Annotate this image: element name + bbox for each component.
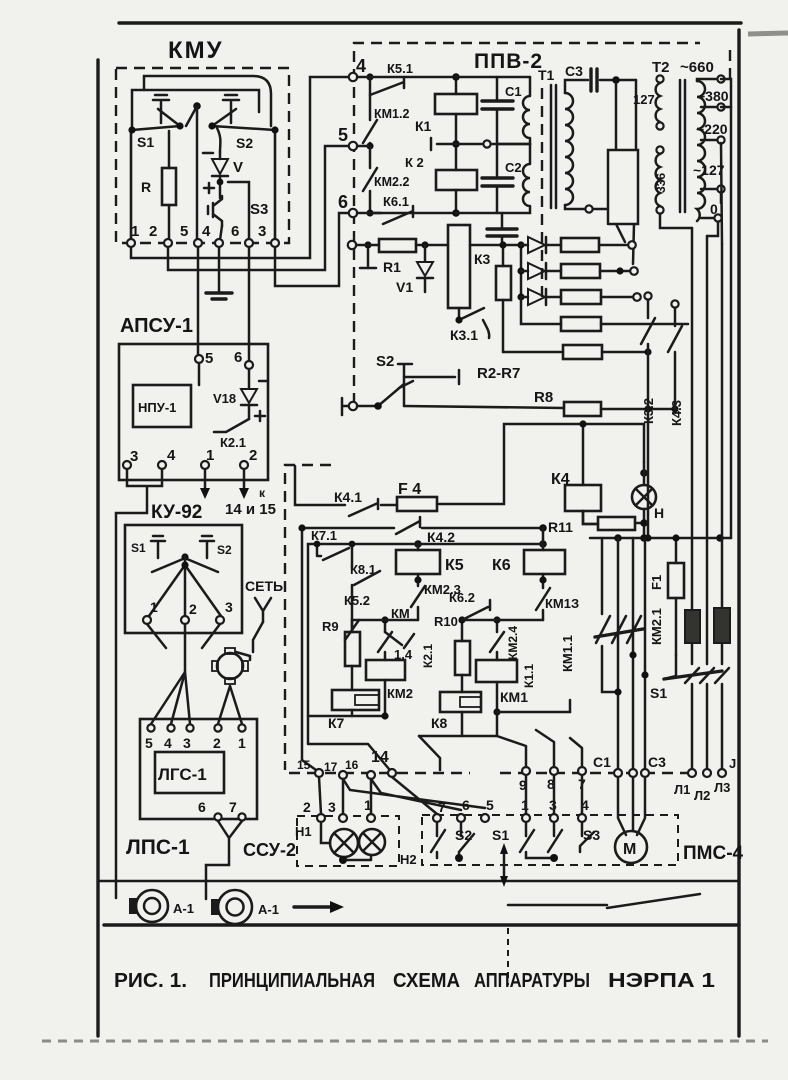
handset hook S2 xyxy=(223,95,239,123)
svg-text:4: 4 xyxy=(167,447,176,464)
wire KM1 bottom xyxy=(419,682,497,736)
svg-text:1: 1 xyxy=(131,223,139,240)
svg-text:НЭРПА 1: НЭРПА 1 xyxy=(608,970,715,992)
relay K8 xyxy=(440,692,481,712)
KMU inner enclosure xyxy=(131,130,275,243)
wire pin2 to PPV pin5 xyxy=(168,146,349,270)
svg-text:КМ1.2: КМ1.2 xyxy=(374,107,409,121)
svg-text:К6.1: К6.1 xyxy=(383,194,409,209)
switch K4.2 xyxy=(396,517,420,534)
switch K7.1 xyxy=(317,544,349,560)
resistor row4 xyxy=(561,317,601,331)
S2 left terminal xyxy=(342,398,349,415)
switch S1 contacts xyxy=(132,109,180,130)
pin 3 xyxy=(216,616,224,624)
capacitor C2 xyxy=(496,144,499,176)
wire 14 diag xyxy=(419,736,440,770)
svg-text:А-1: А-1 xyxy=(258,902,279,917)
wires fan to LGS pins xyxy=(151,672,190,724)
riser top connectors xyxy=(660,214,692,228)
svg-text:К6: К6 xyxy=(492,557,511,574)
svg-text:6: 6 xyxy=(462,797,470,813)
T2 primary upper xyxy=(656,75,663,82)
wire pin5 to APSU xyxy=(197,247,200,355)
wire W2 branch xyxy=(302,527,394,530)
contact KM1.2 xyxy=(363,77,377,146)
diode D2 xyxy=(521,270,528,273)
svg-text:КМ2.4: КМ2.4 xyxy=(506,626,520,660)
svg-text:S2: S2 xyxy=(236,135,253,151)
arrow from pin 1 xyxy=(204,469,207,488)
border frame right line xyxy=(737,30,740,1036)
svg-text:7: 7 xyxy=(229,799,237,815)
inductor top xyxy=(491,77,530,144)
svg-text:~220: ~220 xyxy=(696,121,728,137)
svg-text:R1: R1 xyxy=(383,259,401,275)
svg-text:КМ1З: КМ1З xyxy=(545,596,579,611)
svg-text:КМ2: КМ2 xyxy=(387,686,413,701)
svg-text:F 4: F 4 xyxy=(398,481,421,498)
wire pin5 inside xyxy=(198,363,201,385)
svg-text:15: 15 xyxy=(297,758,311,772)
switch contacts KU xyxy=(152,559,218,572)
svg-text:Н2: Н2 xyxy=(400,852,417,867)
pin 2 xyxy=(164,239,172,247)
phase risers right group xyxy=(691,228,694,664)
svg-text:Л2: Л2 xyxy=(694,788,710,803)
svg-text:К3.1: К3.1 xyxy=(450,327,478,343)
pin 4 xyxy=(215,239,223,247)
tap 0 xyxy=(701,217,714,220)
wire K4 to R11 xyxy=(583,511,598,524)
relay K1 xyxy=(435,94,477,114)
svg-text:4: 4 xyxy=(356,56,366,76)
wire pins34 join xyxy=(116,469,162,898)
tap 380 xyxy=(701,106,717,109)
diag wires rowA to S2 xyxy=(343,777,485,814)
svg-text:СХЕМА: СХЕМА xyxy=(393,970,460,992)
svg-text:М: М xyxy=(623,841,636,858)
phase risers left group xyxy=(602,538,618,692)
switch K3.1 xyxy=(459,308,489,338)
svg-text:S1: S1 xyxy=(492,827,509,843)
wire pin3 to PPV pin6 xyxy=(275,213,349,286)
svg-text:2: 2 xyxy=(249,447,257,464)
wire K7 bottom xyxy=(351,710,354,716)
resistor R8 xyxy=(564,402,601,416)
svg-text:АПСУ-1: АПСУ-1 xyxy=(120,315,193,337)
resistor R xyxy=(162,168,176,205)
wire K4.2 bus xyxy=(422,527,543,530)
svg-text:5: 5 xyxy=(486,797,494,813)
relay K2 xyxy=(436,170,477,190)
transformer T1 core xyxy=(550,85,553,208)
lamp N2 xyxy=(359,829,385,855)
svg-text:С2: С2 xyxy=(505,160,522,175)
resistor row1 xyxy=(561,238,599,252)
pin 5 xyxy=(194,239,202,247)
wire left riser xyxy=(302,528,316,770)
inductor bottom xyxy=(456,144,530,213)
diode V1 xyxy=(424,245,427,261)
wires row A to row B left xyxy=(319,777,371,814)
pin 4 xyxy=(349,73,357,81)
svg-text:3: 3 xyxy=(130,448,138,465)
pin 2 xyxy=(240,461,248,469)
pin 3 xyxy=(123,461,131,469)
block KU-92 box xyxy=(125,525,242,633)
svg-text:А-1: А-1 xyxy=(173,901,194,916)
svg-text:Т2: Т2 xyxy=(652,59,670,76)
svg-text:6: 6 xyxy=(338,192,348,212)
horizontal rule above speakers xyxy=(98,880,739,883)
svg-text:S2: S2 xyxy=(217,543,232,557)
svg-text:РИС. 1.: РИС. 1. xyxy=(114,970,187,992)
svg-text:1: 1 xyxy=(206,447,214,464)
lamp wires xyxy=(321,822,371,860)
svg-text:6: 6 xyxy=(231,223,239,240)
svg-text:Н1: Н1 xyxy=(295,824,312,839)
svg-text:КМ1.1: КМ1.1 xyxy=(560,635,575,672)
diode V18 xyxy=(248,369,251,388)
wire pin4 to ground xyxy=(218,247,221,292)
wire F4 to K4 xyxy=(437,424,644,504)
motor M xyxy=(618,777,645,835)
svg-text:F1: F1 xyxy=(649,575,664,590)
tap 220 xyxy=(701,139,717,142)
wire center fan xyxy=(149,557,221,616)
svg-text:К 2: К 2 xyxy=(405,155,424,170)
border frame left line xyxy=(96,60,99,1036)
contact K6.2 xyxy=(462,600,490,620)
dashed divider T1 xyxy=(541,88,543,300)
fuse F3 xyxy=(714,608,730,643)
fuse F1 xyxy=(668,563,684,598)
fuse F2 xyxy=(685,610,700,643)
resistor row2 xyxy=(561,264,600,278)
wire S2 to R8 xyxy=(404,406,564,408)
contact KM13 xyxy=(536,574,550,620)
block KMU dashed box xyxy=(116,68,289,243)
svg-text:Н: Н xyxy=(654,505,664,521)
loudspeaker A-1 left xyxy=(136,890,168,922)
svg-text:К7: К7 xyxy=(328,715,345,731)
scan smudge top right xyxy=(748,33,788,34)
svg-text:1: 1 xyxy=(238,735,246,751)
svg-text:6: 6 xyxy=(234,349,242,366)
contact 1.4 xyxy=(385,632,414,648)
diode rail xyxy=(520,245,523,297)
bus W4 xyxy=(590,537,731,540)
svg-text:К3: К3 xyxy=(474,251,491,267)
tap 127 xyxy=(701,188,717,191)
svg-text:2: 2 xyxy=(149,223,157,240)
svg-text:~660: ~660 xyxy=(680,59,714,76)
hook T left xyxy=(151,536,165,558)
svg-text:С1: С1 xyxy=(593,754,611,770)
svg-text:1: 1 xyxy=(150,599,158,615)
relay K5 xyxy=(396,550,440,574)
svg-text:К5.2: К5.2 xyxy=(344,593,370,608)
svg-text:336: 336 xyxy=(654,173,668,193)
relay K3 xyxy=(448,225,470,308)
svg-text:R11: R11 xyxy=(548,519,573,535)
KMU top loop outer xyxy=(144,76,271,126)
svg-text:2: 2 xyxy=(189,601,197,617)
wire pin6 to APSU xyxy=(248,247,251,361)
svg-text:3: 3 xyxy=(258,223,266,240)
node common top xyxy=(193,102,201,110)
svg-text:R9: R9 xyxy=(322,619,339,634)
svg-text:R2-R7: R2-R7 xyxy=(477,365,520,382)
pin 4 xyxy=(158,461,166,469)
block APSU-1 box xyxy=(119,344,268,480)
handset hook S1 xyxy=(153,95,169,123)
svg-text:К1.1: К1.1 xyxy=(522,664,536,688)
pin 5 xyxy=(195,355,203,363)
svg-text:КМУ: КМУ xyxy=(168,37,224,64)
pin 1 xyxy=(201,461,209,469)
diode D3 xyxy=(521,296,528,299)
svg-text:К7.1: К7.1 xyxy=(311,528,337,543)
svg-text:S1: S1 xyxy=(650,685,667,701)
svg-text:14: 14 xyxy=(371,749,389,766)
wire to pin 3 xyxy=(228,182,249,240)
transistor S3 xyxy=(208,196,222,226)
node pin4 xyxy=(366,73,373,80)
svg-text:7: 7 xyxy=(438,799,446,815)
KMU top loop inner xyxy=(132,90,259,128)
pin 1 xyxy=(127,239,135,247)
wires mic to LGS xyxy=(218,686,242,724)
svg-text:Т1: Т1 xyxy=(538,67,555,83)
wire mid tap xyxy=(431,138,482,150)
svg-text:5: 5 xyxy=(338,125,348,145)
svg-text:КМ2.2: КМ2.2 xyxy=(374,175,409,189)
loudspeaker A-1 right xyxy=(218,890,252,924)
svg-text:6: 6 xyxy=(198,799,206,815)
svg-text:Л3: Л3 xyxy=(714,780,730,795)
svg-text:К6.2: К6.2 xyxy=(449,590,475,605)
svg-text:К1: К1 xyxy=(415,118,432,134)
polarity minus xyxy=(203,152,213,155)
hook T right xyxy=(200,536,214,558)
resistor R1 xyxy=(356,244,379,247)
switch K8.1 xyxy=(352,544,380,632)
wire bottom bus xyxy=(370,212,456,215)
capacitor C1 xyxy=(496,77,499,99)
wire KM2 bottom xyxy=(308,680,385,716)
resistor row3 xyxy=(561,290,601,304)
switch S2 contacts xyxy=(212,109,275,130)
svg-text:Л1: Л1 xyxy=(674,782,690,797)
vertical arrow xyxy=(503,852,506,878)
transformer T2 core xyxy=(679,80,682,212)
svg-text:С3: С3 xyxy=(648,754,666,770)
capacitor above K3 xyxy=(501,213,504,227)
node T1 bottom xyxy=(585,205,592,212)
svg-text:4: 4 xyxy=(202,223,211,240)
block PPV-2 dashed box xyxy=(354,43,700,404)
contact KM xyxy=(378,620,392,660)
switch K6.1 xyxy=(357,206,413,224)
S2 contact xyxy=(357,364,413,406)
wire K3 top xyxy=(470,244,521,247)
wire K1 K2 vertical xyxy=(455,77,458,213)
svg-text:127: 127 xyxy=(633,92,655,107)
ground stub xyxy=(360,249,376,268)
svg-text:ППВ-2: ППВ-2 xyxy=(474,50,543,73)
svg-text:5: 5 xyxy=(180,223,188,240)
svg-text:16: 16 xyxy=(345,758,359,772)
main bus W3 xyxy=(414,540,422,548)
svg-text:R8: R8 xyxy=(534,389,553,406)
T1 winding xyxy=(565,93,573,205)
svg-text:К8: К8 xyxy=(431,715,448,731)
wire K5 row to KM xyxy=(352,619,418,622)
resistor row5 xyxy=(563,345,602,359)
block LGS-1 box xyxy=(140,719,257,819)
switch K4.1 xyxy=(349,499,378,516)
svg-text:К2.1: К2.1 xyxy=(220,435,246,450)
block PMS-4 dashed box xyxy=(422,815,678,865)
switch K2.1 xyxy=(214,419,249,432)
svg-text:3: 3 xyxy=(225,599,233,615)
switch S1 contacts xyxy=(520,822,554,858)
signal lamp N xyxy=(640,469,648,477)
svg-text:14 и 15: 14 и 15 xyxy=(225,501,276,518)
horizontal rule above caption xyxy=(104,923,739,926)
antenna xyxy=(255,598,271,622)
svg-text:ПРИНЦИПИАЛЬНАЯ: ПРИНЦИПИАЛЬНАЯ xyxy=(209,970,375,992)
wire loop xyxy=(593,80,638,264)
wire top bus xyxy=(357,76,456,79)
svg-text:к: к xyxy=(259,486,266,500)
svg-text:R: R xyxy=(141,179,151,195)
svg-text:~380: ~380 xyxy=(697,88,729,104)
svg-text:КМ2.1: КМ2.1 xyxy=(649,608,664,645)
svg-text:КМ1: КМ1 xyxy=(500,689,528,705)
module LGS-1 inner xyxy=(155,752,224,793)
lamp N1 xyxy=(330,829,358,857)
arrow right xyxy=(294,905,332,908)
wire antenna to mic xyxy=(236,622,263,660)
polarity minus xyxy=(259,380,268,383)
wire K8 bottom xyxy=(461,712,464,736)
pin 6 xyxy=(349,209,357,217)
polarity plus xyxy=(255,411,265,421)
svg-text:СЕТЬ: СЕТЬ xyxy=(245,578,283,594)
pin 3 xyxy=(271,239,279,247)
diode V xyxy=(217,128,220,152)
resistor R9 xyxy=(345,632,360,666)
wire pin1 to PPV pin4 xyxy=(131,77,349,258)
pin 2 xyxy=(181,616,189,624)
wire common xyxy=(196,113,199,240)
svg-text:3: 3 xyxy=(328,799,336,815)
arrow from pin 2 xyxy=(243,469,246,488)
wire KM1 row to motor bus xyxy=(497,700,570,712)
wires rowA to S3 pins xyxy=(526,775,582,814)
contact KM2.2 xyxy=(363,146,377,213)
svg-text:К2.1: К2.1 xyxy=(421,644,435,668)
svg-text:ССУ-2: ССУ-2 xyxy=(243,840,296,860)
pin R1 input xyxy=(348,241,356,249)
svg-text:К4.3: К4.3 xyxy=(669,400,684,426)
svg-text:5: 5 xyxy=(145,735,153,751)
svg-text:2: 2 xyxy=(303,799,311,815)
wires LGS pins 6 7 down xyxy=(206,821,242,899)
svg-text:S2: S2 xyxy=(376,353,394,370)
wire W3 riser xyxy=(308,528,543,769)
svg-text:2: 2 xyxy=(213,735,221,751)
svg-text:ЛПС-1: ЛПС-1 xyxy=(126,836,190,859)
svg-text:17: 17 xyxy=(324,760,338,774)
contact K5.2 xyxy=(345,620,359,640)
T2 primary lower xyxy=(656,146,663,153)
svg-text:S1: S1 xyxy=(131,541,146,555)
svg-text:V: V xyxy=(233,159,243,176)
svg-text:К4.1: К4.1 xyxy=(334,489,362,505)
bottom dotted rule xyxy=(42,1040,768,1043)
svg-text:0: 0 xyxy=(710,201,718,217)
svg-text:К5.1: К5.1 xyxy=(387,61,413,76)
wire stubs to pins 9 8 7 xyxy=(497,730,582,767)
T2 secondary xyxy=(697,81,705,221)
svg-text:С1: С1 xyxy=(505,84,522,99)
svg-text:Ј: Ј xyxy=(729,756,736,771)
tap 660 xyxy=(697,79,717,81)
contact KM2.4 xyxy=(490,620,504,660)
svg-text:ПМС-4: ПМС-4 xyxy=(683,843,744,864)
terminal row A dashed xyxy=(289,772,470,774)
pin 6 xyxy=(245,361,253,369)
resistor beside K3 xyxy=(496,266,511,300)
svg-text:4: 4 xyxy=(164,735,172,751)
ground xyxy=(206,293,232,299)
module NPU-1 xyxy=(133,385,191,427)
relay K7 xyxy=(332,690,379,710)
svg-text:R10: R10 xyxy=(434,614,458,629)
svg-text:АППАРАТУРЫ: АППАРАТУРЫ xyxy=(474,970,590,992)
relay KM1 xyxy=(476,660,517,682)
svg-text:К5: К5 xyxy=(445,557,464,574)
pins 5 4 3 2 1 xyxy=(147,724,154,731)
wire K6 row xyxy=(462,619,543,622)
svg-text:ЛГС-1: ЛГС-1 xyxy=(158,765,207,784)
wire feed K4.1 row xyxy=(295,466,345,505)
svg-text:3: 3 xyxy=(183,735,191,751)
svg-text:V1: V1 xyxy=(396,279,413,295)
svg-text:С3: С3 xyxy=(565,63,583,79)
pin 5 xyxy=(349,142,357,150)
resistor R11 xyxy=(598,517,635,530)
knife switch bottom right xyxy=(508,894,700,908)
resistor R10 xyxy=(455,641,470,675)
border frame top line xyxy=(119,21,741,24)
svg-text:НПУ-1: НПУ-1 xyxy=(138,400,176,415)
relay KM2 xyxy=(366,660,405,680)
dashed stub below xyxy=(507,928,509,985)
wires KU pins converge xyxy=(147,624,220,672)
svg-text:5: 5 xyxy=(205,350,213,367)
svg-text:S1: S1 xyxy=(137,134,154,150)
polarity plus xyxy=(204,183,214,193)
svg-text:К4.2: К4.2 xyxy=(427,529,455,545)
svg-text:S3: S3 xyxy=(250,201,268,218)
microphone xyxy=(217,653,243,679)
wire R1 to K3 xyxy=(416,244,448,247)
